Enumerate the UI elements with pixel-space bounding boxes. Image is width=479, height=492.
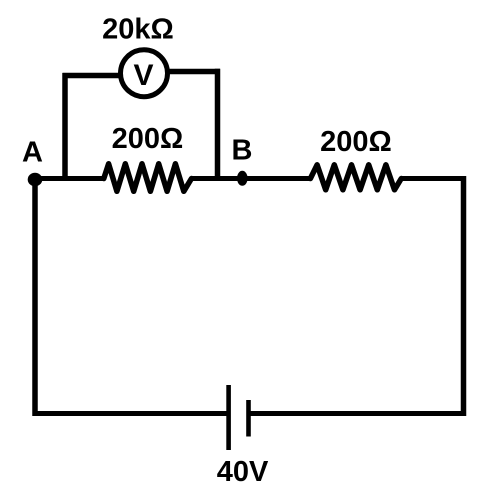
wire: node A to resistor R1 [33,176,105,181]
node B junction dot [237,171,248,186]
svg-text:V: V [133,59,153,92]
wire: voltmeter branch right vertical [215,69,221,181]
svg-text:200Ω: 200Ω [112,123,184,155]
wire: bottom right (from battery - plate) [250,411,466,416]
svg-text:B: B [232,135,253,167]
battery BT1 [229,385,249,450]
voltmeter U1 [121,50,168,97]
wire: right vertical [461,176,467,416]
svg-text:200Ω: 200Ω [320,126,392,158]
resistor R1 (between A and B) [104,164,192,192]
svg-text:40V: 40V [217,456,269,488]
wire: bottom left (to battery + plate) [33,411,228,416]
wire: voltmeter branch left vertical [62,73,68,181]
wire: voltmeter right top horizontal [164,69,220,75]
wire: R2 to top-right corner [401,176,466,181]
svg-text:20kΩ: 20kΩ [102,14,174,46]
wire: left vertical [32,179,38,417]
resistor R2 (right of B) [310,165,401,190]
wire: voltmeter left top horizontal [63,73,125,79]
wire: R1 to R2 through node B [191,176,311,181]
node A junction dot [28,173,43,187]
svg-text:A: A [22,137,43,169]
